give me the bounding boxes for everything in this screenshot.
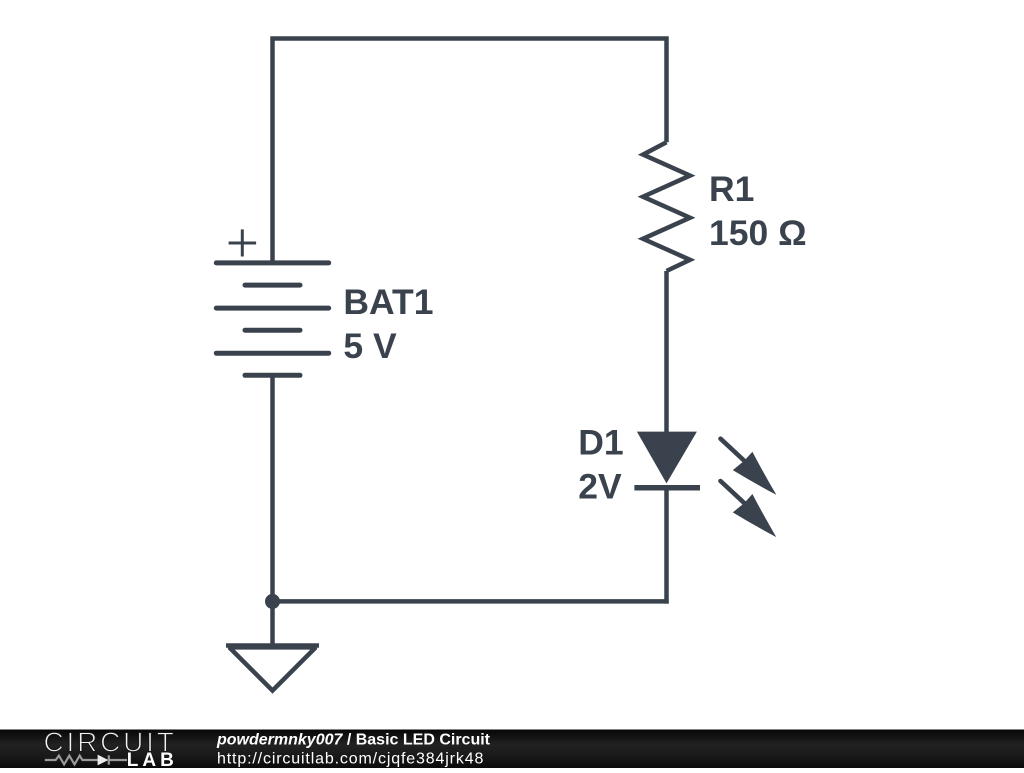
- CircuitLab logo CIRCUIT: [44, 727, 177, 758]
- svg-text:BAT1: BAT1: [343, 282, 433, 322]
- svg-text:LAB: LAB: [127, 750, 178, 768]
- LED light arrow 2: [721, 481, 777, 537]
- battery plus sign: [229, 229, 257, 256]
- LED light arrow 1: [721, 439, 777, 495]
- svg-text:R1: R1: [709, 169, 754, 209]
- svg-text:D1: D1: [578, 422, 623, 462]
- svg-text:2V: 2V: [578, 466, 622, 506]
- label BAT1 / 5 V: [343, 282, 433, 366]
- wire D1 to bottom run: [664, 488, 669, 604]
- footer url: [217, 751, 484, 768]
- label R1 / 150 ohm: [709, 169, 807, 253]
- svg-text:150 Ω: 150 Ω: [709, 213, 807, 253]
- wire R1 to D1: [664, 271, 669, 434]
- footer bar: [0, 730, 1024, 769]
- LED D1 triangle: [634, 432, 700, 488]
- footer title: powdermnky007 / Basic LED Circuit: [216, 731, 491, 748]
- resistor R1: [643, 142, 690, 271]
- CircuitLab logo LAB: [127, 750, 178, 771]
- battery BAT1 plates: [216, 263, 328, 375]
- wire battery top to R1 top (left riser, top run, right riser): [273, 39, 667, 263]
- ground: [226, 601, 319, 690]
- label D1 / 2V: [578, 422, 623, 506]
- CircuitLab logo diode triangle: [98, 755, 109, 766]
- svg-text:powdermnky007 / Basic LED Circ: powdermnky007 / Basic LED Circuit: [216, 731, 491, 748]
- CircuitLab logo resistor-diode squiggle: [45, 755, 127, 764]
- svg-text:http://circuitlab.com/cjqfe384: http://circuitlab.com/cjqfe384jrk48: [217, 751, 484, 768]
- wire bottom run: [273, 599, 669, 604]
- svg-text:5 V: 5 V: [343, 326, 397, 366]
- wire battery bottom to node: [270, 375, 275, 601]
- node junction dot: [265, 594, 280, 609]
